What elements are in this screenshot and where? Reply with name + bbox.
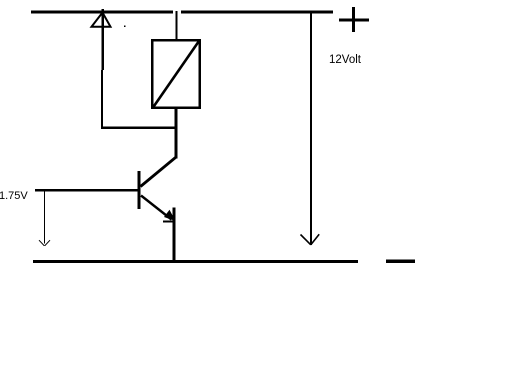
- measurement arrow 1.75V shaft: [44, 191, 46, 244]
- emitter tick mark: [163, 220, 176, 222]
- transistor Q1 emitter arrowhead: [164, 210, 176, 221]
- wire top rail left segment: [31, 11, 173, 14]
- load box diagonal: [153, 41, 199, 108]
- wire top rail right segment: [181, 11, 333, 14]
- wire feedback vertical: [101, 70, 103, 129]
- voltage arrow 12V head: [301, 234, 320, 245]
- 12Volt label: [329, 54, 361, 66]
- 1.75V label: [0, 190, 28, 202]
- load box (relay coil) K1: [152, 40, 200, 108]
- up arrow (feedback direction) shaft: [102, 9, 104, 70]
- plus terminal +: [339, 7, 369, 32]
- wire collector diagonal: [141, 158, 176, 187]
- wire from box bottom (collector vertical): [175, 108, 178, 159]
- transistor Q1 emitter diagonal: [141, 196, 172, 220]
- up arrow (feedback direction) triangle head: [92, 13, 111, 27]
- voltage arrow 12V shaft: [310, 13, 312, 245]
- minus terminal -: [386, 260, 415, 263]
- wire stub from top rail to box: [175, 11, 177, 40]
- wire emitter vertical: [173, 208, 176, 263]
- wire base: [35, 189, 139, 191]
- wire bottom rail: [33, 260, 358, 263]
- stray dot: [124, 25, 126, 27]
- wire feedback horizontal: [101, 127, 176, 130]
- measurement arrow 1.75V head: [39, 240, 50, 246]
- transistor Q1 bar: [138, 171, 141, 209]
